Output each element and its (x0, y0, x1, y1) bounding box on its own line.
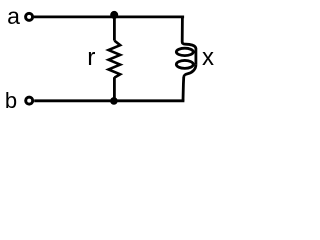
svg-text:a: a (7, 3, 20, 29)
svg-text:x: x (202, 44, 214, 71)
svg-text:b: b (5, 88, 17, 113)
svg-text:r: r (87, 44, 95, 71)
